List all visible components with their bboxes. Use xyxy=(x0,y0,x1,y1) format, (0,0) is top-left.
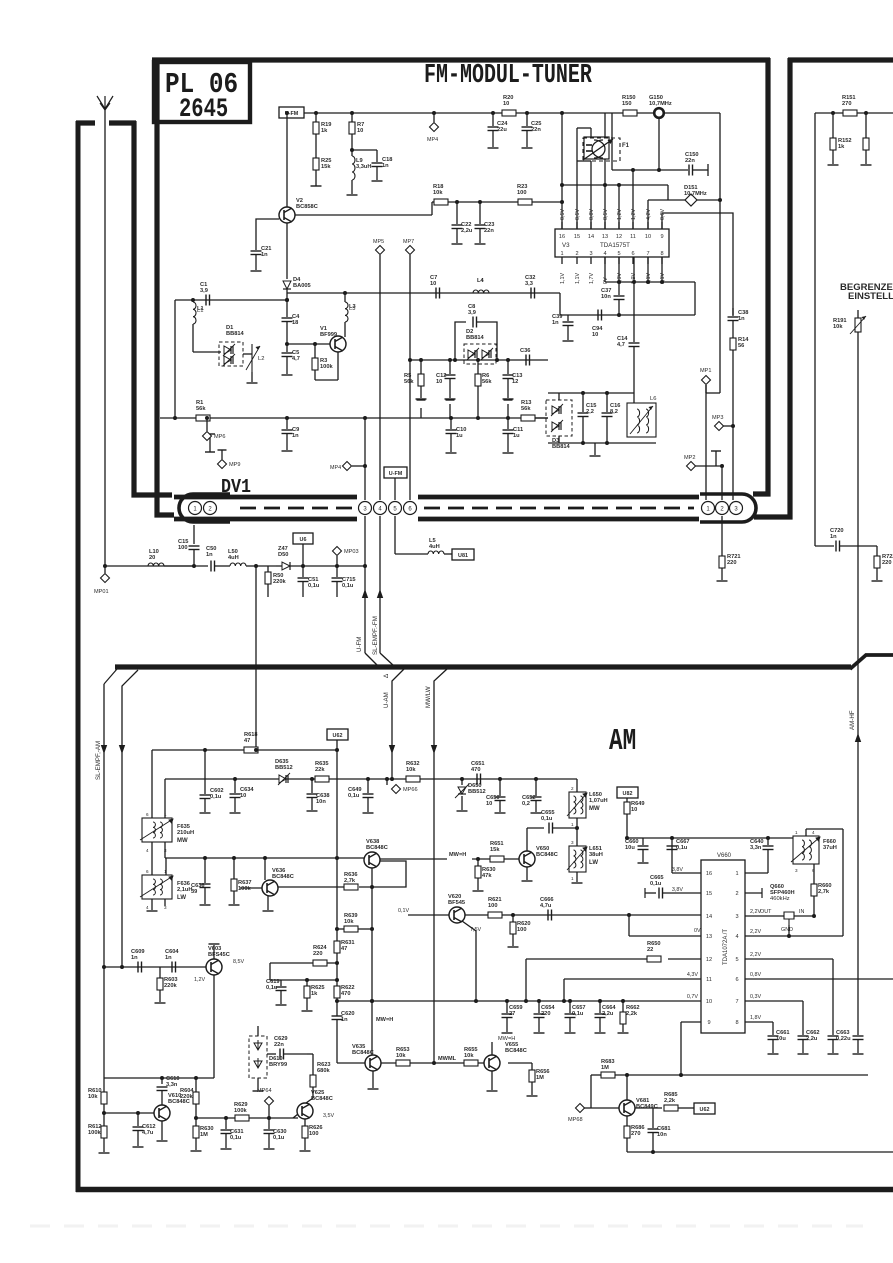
frame: FM module box top edge xyxy=(152,57,770,62)
svg-text:5: 5 xyxy=(617,251,620,257)
wire y=282 to y=315 link xyxy=(694,282,696,315)
wire V638 output row to V650 xyxy=(380,858,447,860)
resistor R635 22k xyxy=(315,776,329,782)
svg-text:1n: 1n xyxy=(206,552,213,558)
svg-text:22k: 22k xyxy=(315,767,325,773)
capacitor C667 0.1u xyxy=(670,836,674,840)
svg-text:1k: 1k xyxy=(311,991,318,997)
svg-text:2,2u: 2,2u xyxy=(602,1011,614,1017)
wire R683 into bottom rail xyxy=(679,1073,683,1077)
wire V2 base node up to R18 rail xyxy=(431,202,433,215)
wire G150 to IF wire xyxy=(658,117,660,170)
svg-text:8,5V: 8,5V xyxy=(233,959,244,965)
svg-text:56k: 56k xyxy=(521,406,531,412)
svg-text:MP01: MP01 xyxy=(94,589,109,595)
trimmer stub on MP2 wire xyxy=(715,451,717,466)
capacitor C94 10 in series xyxy=(597,310,599,321)
capacitor C619 0.1u xyxy=(270,979,281,981)
svg-text:V3: V3 xyxy=(562,242,570,249)
svg-text:U-FM: U-FM xyxy=(389,471,403,477)
svg-text:3,9: 3,9 xyxy=(468,310,476,316)
svg-text:11: 11 xyxy=(630,234,636,240)
wire rail 779 corner down to F635 pin1 xyxy=(164,779,166,818)
resistor R618 47 xyxy=(244,747,258,753)
inductor L3 drain feed xyxy=(344,293,346,302)
DV1 pin 9 circle xyxy=(730,502,743,515)
resistor R25 15k xyxy=(315,134,317,158)
connection box U-FM top left xyxy=(279,107,304,118)
wire MP1 node to DV1 pin7 xyxy=(705,385,707,500)
svg-text:MW: MW xyxy=(177,838,188,844)
capacitor C655 0.1u link xyxy=(527,827,544,829)
svg-text:8: 8 xyxy=(735,1020,738,1026)
frame: AM box left chamfer xyxy=(104,669,117,684)
filter F1 box xyxy=(584,137,609,159)
resistor R653 10k xyxy=(396,1060,410,1066)
svg-text:2,2k: 2,2k xyxy=(664,1098,676,1104)
transistor V610 BC848C xyxy=(154,1105,170,1121)
diode D4 BA885 xyxy=(283,281,291,289)
resistor R636 2.7k xyxy=(344,884,358,890)
svg-text:1n: 1n xyxy=(382,163,389,169)
wire V635 emitter xyxy=(372,1071,374,1088)
svg-text:56: 56 xyxy=(738,343,744,349)
title AM xyxy=(609,724,636,759)
wire rail end down to D151 node xyxy=(719,113,721,200)
svg-text:TDA1072A /T: TDA1072A /T xyxy=(723,929,729,965)
svg-text:4,7: 4,7 xyxy=(617,342,625,348)
signal arrow AM-HF upward xyxy=(855,733,861,742)
MW oscillator coil L650 1.07uH xyxy=(576,779,578,792)
svg-text:3,8V: 3,8V xyxy=(672,867,683,873)
wire U62 bus x=337 down xyxy=(336,740,338,1016)
svg-text:270: 270 xyxy=(631,1131,641,1137)
svg-text:56k: 56k xyxy=(404,379,414,385)
svg-text:SL-EMPF.-FM: SL-EMPF.-FM xyxy=(372,616,379,655)
resistor R637 100k xyxy=(232,856,236,860)
svg-text:1n: 1n xyxy=(738,316,745,322)
wire mute row y=1118 xyxy=(196,1117,298,1119)
svg-text:BC848C: BC848C xyxy=(352,1050,374,1056)
svg-text:MW=H: MW=H xyxy=(449,852,466,858)
stub terminators above rail xyxy=(417,399,426,401)
transistor V635 BC848C xyxy=(365,1055,381,1071)
frame: antenna shield cap right segment xyxy=(109,120,136,125)
svg-text:BC858C: BC858C xyxy=(296,204,318,210)
svg-text:MW=H: MW=H xyxy=(376,1017,393,1023)
transistor V620 BF545 xyxy=(449,907,465,923)
tank ground xyxy=(594,443,596,455)
svg-text:10u: 10u xyxy=(625,845,635,851)
capacitor C9 1n xyxy=(285,416,289,420)
varactor pair D3 BB814 xyxy=(546,400,572,436)
wire D2 row down links to R1 rail xyxy=(420,408,422,418)
wire R618 rail y=750 xyxy=(152,749,337,751)
capacitor C12 10 xyxy=(449,360,451,374)
svg-text:10k: 10k xyxy=(833,324,843,330)
capacitor C14 4.7 on pin6 column xyxy=(633,257,635,342)
LW oscillator coil L651 38uH xyxy=(569,846,586,872)
svg-text:BB512: BB512 xyxy=(275,765,293,771)
resistor R683 1M xyxy=(601,1072,615,1078)
capacitor C620 1n xyxy=(332,1015,343,1017)
resistor R623 680k xyxy=(307,1053,313,1055)
capacitor C4 18 xyxy=(285,298,289,302)
svg-text:1,2V: 1,2V xyxy=(631,209,637,220)
inductor L4 xyxy=(473,290,489,293)
svg-text:8,8V: 8,8V xyxy=(589,209,595,220)
svg-text:0,1u: 0,1u xyxy=(308,583,320,589)
svg-text:0,7V: 0,7V xyxy=(687,994,698,1000)
svg-text:BC848C: BC848C xyxy=(272,874,294,880)
svg-text:3,3n: 3,3n xyxy=(166,1082,178,1088)
capacitor C661 10u xyxy=(768,1035,779,1037)
svg-text:0,1u: 0,1u xyxy=(572,1011,584,1017)
wire y=546 to C720 xyxy=(815,545,834,547)
test point MP7 xyxy=(406,246,415,255)
capacitor C651 470 in series xyxy=(476,774,478,785)
svg-text:220k: 220k xyxy=(164,983,177,989)
svg-text:BB512: BB512 xyxy=(468,789,486,795)
faint cut mark band at page bottom xyxy=(30,1225,863,1228)
svg-text:210uH: 210uH xyxy=(177,830,194,836)
svg-text:13: 13 xyxy=(602,234,608,240)
capacitor C7 10 xyxy=(435,288,437,299)
wire V638 feedback loop xyxy=(359,861,406,887)
svg-text:100: 100 xyxy=(517,190,527,196)
DV1 pin 1 circle xyxy=(189,502,202,515)
wire IC pin12 up to y=185 xyxy=(618,185,620,229)
svg-text:4: 4 xyxy=(146,848,149,853)
svg-text:15: 15 xyxy=(706,891,712,897)
wire rail into demod tank xyxy=(535,417,548,419)
wire AM supply rail y=838 xyxy=(643,837,793,839)
frame: AM box bottom edge xyxy=(76,1187,893,1193)
capacitor C657 0.1u xyxy=(569,1001,571,1013)
svg-text:4: 4 xyxy=(603,251,606,257)
wire DV1 pin3 down to input rail xyxy=(364,516,366,566)
wire pin6 long right xyxy=(745,978,893,980)
svg-text:56k: 56k xyxy=(196,406,206,412)
frame: FM module box left edge xyxy=(157,58,174,515)
svg-text:0,1V: 0,1V xyxy=(398,908,409,914)
capacitor C21 1n on V2 side branch xyxy=(256,219,279,250)
resistor R650 22 xyxy=(647,956,661,962)
svg-text:460kHz: 460kHz xyxy=(770,896,790,902)
resistor R13 56k xyxy=(521,415,535,421)
resistor R685 2.2k xyxy=(653,1107,662,1109)
svg-text:1n: 1n xyxy=(292,433,299,439)
test point MP2 xyxy=(687,462,696,471)
svg-text:10n: 10n xyxy=(601,294,611,300)
frame: AM box top right step xyxy=(850,655,893,669)
wire pin7 to C662 xyxy=(745,1000,803,1002)
frame: AM box top edge xyxy=(115,664,851,669)
svg-text:12: 12 xyxy=(616,234,622,240)
DV1 dashed centerline left span xyxy=(240,507,356,510)
capacitor C5 4.7 xyxy=(286,344,288,352)
svg-text:1M: 1M xyxy=(200,1132,208,1138)
capacitor C631 0.1u xyxy=(225,1118,227,1129)
inductor L1 xyxy=(192,300,194,302)
resistor R686 270 xyxy=(626,1116,628,1126)
diode Z47 D50 xyxy=(282,562,290,570)
svg-text:2,2V: 2,2V xyxy=(750,952,761,958)
capacitor C1 3.9 in series xyxy=(205,295,207,306)
svg-text:150: 150 xyxy=(622,101,632,107)
capacitor C715 0.1u xyxy=(336,566,338,577)
wire IC pin4 down to rail y=282 xyxy=(604,257,606,282)
svg-text:1: 1 xyxy=(795,830,798,835)
svg-text:1n: 1n xyxy=(552,320,559,326)
svg-text:AM: AM xyxy=(609,724,636,759)
wire: antenna to AM input rail xyxy=(105,565,195,567)
resistor R629 100k xyxy=(235,1115,249,1121)
svg-text:22u: 22u xyxy=(497,127,507,133)
IF transformer F660 37uH xyxy=(793,836,819,864)
frame: antenna shield inner vertical xyxy=(134,121,172,495)
resistor R604 220k xyxy=(195,1078,197,1092)
svg-text:F1: F1 xyxy=(622,143,630,149)
svg-text:22n: 22n xyxy=(685,158,695,164)
test point MP5 xyxy=(376,246,385,255)
svg-text:U62: U62 xyxy=(333,733,343,739)
svg-text:15: 15 xyxy=(574,234,580,240)
resistor R150 150 on rail xyxy=(623,110,637,116)
svg-text:11: 11 xyxy=(706,977,712,983)
discriminator D151 10.7MHz xyxy=(647,200,649,229)
svg-text:TDA1575T: TDA1575T xyxy=(600,242,630,249)
resistor R631 47 xyxy=(336,931,338,941)
DV1 connector label xyxy=(221,477,251,498)
svg-text:220: 220 xyxy=(727,560,737,566)
wire V681 collector to wire 1075 xyxy=(626,1075,628,1100)
svg-text:0V: 0V xyxy=(603,277,609,284)
capacitor C668 spare xyxy=(853,1035,864,1037)
svg-text:BB814: BB814 xyxy=(226,331,245,337)
wire y=293 to IF cap rail xyxy=(560,293,568,315)
wire V636 emitter xyxy=(267,896,269,910)
wire F635 pin3 down to mixer wire xyxy=(164,842,166,858)
svg-text:4: 4 xyxy=(146,905,149,910)
DV1 connector stadium left (pins 1-2) xyxy=(179,494,230,522)
svg-text:0,1u: 0,1u xyxy=(266,985,278,991)
svg-text:BC848C: BC848C xyxy=(536,852,558,858)
IC V3 top pin stubs and voltages xyxy=(561,222,563,229)
svg-text:LW: LW xyxy=(589,860,598,866)
resistor R722 220 xyxy=(876,546,878,556)
svg-text:4,3V: 4,3V xyxy=(687,972,698,978)
svg-text:6: 6 xyxy=(631,251,634,257)
transistor V650 BC848C xyxy=(519,851,535,867)
svg-text:10: 10 xyxy=(357,128,363,134)
wire V655 collector xyxy=(491,1042,493,1055)
resistor R610 10k xyxy=(103,1078,105,1092)
resistor R50 220k xyxy=(267,566,269,572)
svg-text:3,3uH: 3,3uH xyxy=(356,164,372,170)
wire V650 emitter down xyxy=(526,867,528,880)
svg-text:1M: 1M xyxy=(536,1075,544,1081)
capacitor C720 1n xyxy=(835,541,837,552)
svg-text:1n: 1n xyxy=(341,1017,348,1023)
svg-text:0,1u: 0,1u xyxy=(230,1135,242,1141)
svg-text:1,1V: 1,1V xyxy=(575,273,581,284)
wire MP5 down to DV1 pin4 xyxy=(379,255,381,500)
svg-text:10,7MHz: 10,7MHz xyxy=(684,191,707,197)
svg-text:0,1u: 0,1u xyxy=(650,881,662,887)
svg-text:8,2: 8,2 xyxy=(610,409,618,415)
svg-text:0,5V: 0,5V xyxy=(560,209,566,220)
wire filter GND to pin4 wire xyxy=(788,925,790,936)
svg-text:4,7: 4,7 xyxy=(292,356,300,362)
svg-text:10: 10 xyxy=(706,999,712,1005)
variable inductor L2 xyxy=(243,353,252,355)
svg-text:C36: C36 xyxy=(520,348,530,354)
wire F1 bottom to IC pin13 xyxy=(604,159,606,229)
frame: right limiter box left edge xyxy=(754,58,790,517)
resistor R5 56k xyxy=(420,360,422,374)
capacitor C38 1n xyxy=(732,308,734,316)
svg-text:20: 20 xyxy=(149,555,155,561)
svg-text:0,1u: 0,1u xyxy=(541,816,553,822)
frame: page left thick rail xyxy=(76,121,81,1192)
wire V603 emitter down to y=1078 xyxy=(213,975,215,1078)
varactor diode D635 BB512 xyxy=(279,775,286,783)
wire V603 collector up xyxy=(213,945,215,959)
DV1 bottom thick line right span xyxy=(418,517,699,522)
svg-text:2,2k: 2,2k xyxy=(626,1011,638,1017)
transistor V625 BC848C xyxy=(297,1103,313,1119)
inductor L50 4uH xyxy=(230,563,246,566)
IC V3 TDA1575T body xyxy=(555,229,669,257)
svg-text:470: 470 xyxy=(341,991,351,997)
svg-text:BA005: BA005 xyxy=(293,283,311,289)
resistor R660 2.7k xyxy=(813,864,815,884)
DV1 bottom thick line left span xyxy=(174,517,357,522)
svg-text:1,8V: 1,8V xyxy=(750,1015,761,1021)
wire pin2 stub xyxy=(745,892,762,894)
svg-text:BC848C: BC848C xyxy=(311,1096,333,1102)
variable inductor L6 box xyxy=(627,403,656,437)
wire D2 row y=360 xyxy=(410,359,548,361)
svg-text:10: 10 xyxy=(503,101,509,107)
svg-text:220: 220 xyxy=(882,560,892,566)
frame: right limiter box top edge xyxy=(788,57,893,62)
wire V636 collector tap xyxy=(263,856,267,860)
wire V620 source loop xyxy=(462,921,476,1001)
svg-text:10k: 10k xyxy=(406,767,416,773)
svg-text:MW/LW: MW/LW xyxy=(425,686,432,708)
wire IC pin7 down xyxy=(647,257,649,282)
signal line U-AM into AM box xyxy=(392,669,404,779)
svg-text:U-FM: U-FM xyxy=(356,637,363,652)
svg-text:13: 13 xyxy=(706,934,712,940)
svg-text:8,5V: 8,5V xyxy=(603,209,609,220)
tank bottom rail y=443 xyxy=(548,442,656,444)
resistor R7 10 xyxy=(350,111,354,115)
wire junction to long vertical into AM box xyxy=(255,566,257,751)
frame: FM module box right edge xyxy=(753,58,768,494)
wire input row y=967 xyxy=(104,966,206,968)
svg-text:1n: 1n xyxy=(131,955,138,961)
capacitor C51 0.1u xyxy=(302,566,304,577)
svg-text:BC848C: BC848C xyxy=(366,845,388,851)
svg-text:10k: 10k xyxy=(433,190,443,196)
svg-text:47k: 47k xyxy=(482,873,492,879)
DV1 pin 6 circle xyxy=(404,502,417,515)
wire V636 base stub xyxy=(240,887,262,889)
wire pin4 xyxy=(745,935,843,937)
capacitor C662 2.2u xyxy=(798,1035,809,1037)
IC V660 TDA1072A body xyxy=(701,860,745,1033)
svg-text:18: 18 xyxy=(292,320,298,326)
resistor R649 10 xyxy=(626,798,628,802)
capacitor C23 22n xyxy=(478,200,482,204)
svg-text:39: 39 xyxy=(191,889,197,895)
svg-text:LW: LW xyxy=(177,895,186,901)
resistor R662 2.2k xyxy=(622,1001,624,1012)
svg-text:MP6: MP6 xyxy=(214,434,226,440)
wire demod column x=720 down xyxy=(719,200,721,393)
signal line MW/LW into AM box xyxy=(434,669,447,1063)
svg-text:10k: 10k xyxy=(396,1053,406,1059)
resistor R23 100 xyxy=(518,199,532,205)
wire V650 collector up to C655 xyxy=(526,828,528,851)
svg-text:1,2V: 1,2V xyxy=(617,209,623,220)
capacitor C37 10n on pin5 column xyxy=(618,257,620,295)
DV1 pin 5 circle xyxy=(389,502,402,515)
DV1 pin 4 circle xyxy=(374,502,387,515)
svg-text:SL-EMPF,-AM: SL-EMPF,-AM xyxy=(95,741,102,780)
wire C620 to V635 base xyxy=(337,1062,365,1064)
wire IC pin11 up to IF wire xyxy=(632,170,634,229)
svg-text:14: 14 xyxy=(706,914,712,920)
capacitor C652 0.2 xyxy=(534,777,538,781)
wire rail junction to IC pin16 xyxy=(560,111,564,115)
svg-text:100: 100 xyxy=(517,927,527,933)
resistor R152 1k xyxy=(831,111,835,115)
wire IC pin15 ladder to F1 left xyxy=(576,128,578,229)
svg-text:MP03: MP03 xyxy=(344,549,359,555)
wire limiter supply rail y=113 xyxy=(815,112,893,114)
capacitor C25 22n xyxy=(525,111,529,115)
capacitor C630 0.1u xyxy=(267,1116,271,1120)
varactor D650 BB512 xyxy=(461,779,463,785)
capacitor C681 10n xyxy=(635,1107,653,1109)
svg-text:100k: 100k xyxy=(234,1108,247,1114)
signal arrow U-FM upward xyxy=(364,566,366,653)
signal arrow U-AM downward xyxy=(389,745,395,754)
svg-text:8: 8 xyxy=(660,251,663,257)
capacitor C640 3.3n xyxy=(766,836,770,840)
transistor V1 BF999 xyxy=(330,336,346,352)
IC V3 bottom pin stubs and voltages xyxy=(561,257,563,264)
capacitor C663 0.22u xyxy=(828,1035,839,1037)
DV1 top thick line right span xyxy=(418,495,699,500)
svg-text:U-AM: U-AM xyxy=(383,692,390,708)
wire F636 pin4 stub xyxy=(151,899,153,910)
svg-text:10,7MHz: 10,7MHz xyxy=(649,101,672,107)
svg-text:4,7u: 4,7u xyxy=(142,1130,154,1136)
svg-text:MW: MW xyxy=(589,806,600,812)
svg-text:6: 6 xyxy=(735,977,738,983)
svg-text:3,3: 3,3 xyxy=(525,281,533,287)
svg-text:MP4: MP4 xyxy=(427,137,438,143)
wire F1 bottom to IC pin14 xyxy=(590,161,592,229)
resistor R6 56k xyxy=(477,360,479,374)
svg-text:1: 1 xyxy=(560,251,563,257)
test point MP01 xyxy=(104,566,106,573)
